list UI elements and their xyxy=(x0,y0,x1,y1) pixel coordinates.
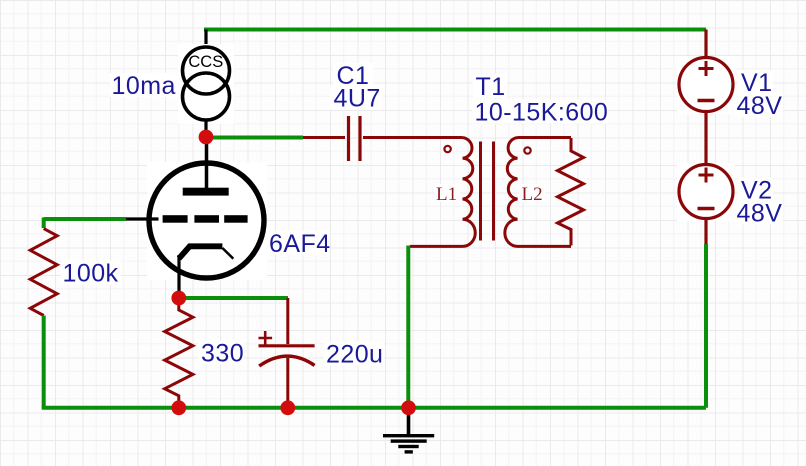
wire V1 top lead xyxy=(704,30,707,58)
wire CCS top lead xyxy=(204,30,207,49)
label C1 xyxy=(333,63,373,87)
svg-text:10ma: 10ma xyxy=(112,72,176,100)
wire V1-V2 xyxy=(704,112,707,165)
svg-text:48V: 48V xyxy=(737,92,783,120)
label 100k xyxy=(61,261,121,285)
capacitor C2 220u top lead xyxy=(286,298,289,344)
svg-text:10-15K:600: 10-15K:600 xyxy=(475,99,609,127)
transformer T1 winding L2 xyxy=(505,138,571,247)
wire plate net xyxy=(206,136,303,140)
triode U1 6AF4 xyxy=(126,144,267,299)
wire transformer bottom lead xyxy=(406,246,410,408)
wire right rail xyxy=(704,244,708,408)
transformer T1 winding L1 xyxy=(410,138,475,247)
label 220u xyxy=(324,342,384,366)
svg-text:330: 330 xyxy=(201,340,244,368)
wire CCS bottom lead xyxy=(204,120,207,143)
load resistor zigzag xyxy=(558,138,584,246)
wire cathode net xyxy=(179,296,288,300)
svg-text:L1: L1 xyxy=(436,184,457,205)
junction 330 bottom xyxy=(171,400,186,415)
phasing dot L1 xyxy=(444,146,450,152)
label 10-15K:600 xyxy=(472,100,608,124)
svg-text:100k: 100k xyxy=(63,260,119,288)
junction ground node xyxy=(401,400,416,415)
junction 220u bottom xyxy=(280,400,295,415)
label V1 48V xyxy=(735,93,783,117)
label 6AF4 xyxy=(266,231,330,255)
phasing dot L2 xyxy=(524,147,530,153)
label T1 xyxy=(473,74,507,98)
label L1 xyxy=(434,184,460,202)
wire bottom rail xyxy=(42,406,706,410)
capacitor C2 220u xyxy=(259,331,315,408)
svg-text:T1: T1 xyxy=(476,73,506,101)
svg-text:48V: 48V xyxy=(737,200,783,228)
svg-text:L2: L2 xyxy=(522,184,543,205)
label V2 xyxy=(738,178,773,202)
transformer core xyxy=(481,142,494,241)
label V1 xyxy=(738,70,773,94)
wire 100k bottom xyxy=(42,316,46,408)
junction cathode node xyxy=(171,291,186,306)
label L2 xyxy=(520,184,546,202)
junction plate node xyxy=(199,130,214,145)
voltage source V1 xyxy=(677,56,735,114)
current source CCS xyxy=(178,44,234,124)
wire 100k top lead xyxy=(42,218,46,229)
label V2 48V xyxy=(735,201,783,225)
wire V2 bottom lead xyxy=(704,219,707,246)
wire top rail xyxy=(204,28,706,32)
wire grid net xyxy=(44,217,126,221)
label 330 xyxy=(198,341,244,365)
label 4U7 xyxy=(330,86,382,110)
capacitor C1 xyxy=(303,116,463,161)
svg-text:220u: 220u xyxy=(326,341,383,369)
label 10ma xyxy=(110,73,178,97)
resistor R2 330 xyxy=(165,298,193,408)
ground xyxy=(383,408,434,454)
svg-text:4U7: 4U7 xyxy=(334,85,381,113)
svg-text:CCS: CCS xyxy=(188,53,223,71)
svg-text:6AF4: 6AF4 xyxy=(269,230,331,258)
voltage source V2 xyxy=(677,163,735,221)
resistor R1 100k xyxy=(30,229,57,316)
